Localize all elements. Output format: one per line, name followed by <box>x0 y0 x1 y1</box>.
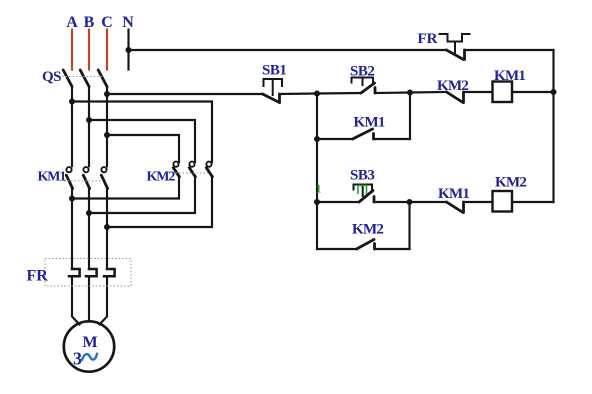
svg-text:KM1: KM1 <box>354 115 385 131</box>
svg-text:M: M <box>82 334 97 351</box>
svg-text:SB3: SB3 <box>350 168 374 184</box>
svg-text:QS: QS <box>42 69 61 85</box>
svg-text:B: B <box>84 14 95 31</box>
svg-text:KM1: KM1 <box>494 68 525 84</box>
svg-text:SB1: SB1 <box>262 63 286 79</box>
svg-text:3: 3 <box>73 349 82 369</box>
svg-text:C: C <box>101 14 113 31</box>
svg-text:N: N <box>122 14 134 31</box>
svg-text:KM1: KM1 <box>38 170 67 185</box>
svg-text:FR: FR <box>418 31 438 47</box>
svg-text:FR: FR <box>27 268 49 285</box>
svg-text:KM2: KM2 <box>147 170 176 185</box>
svg-text:KM2: KM2 <box>437 78 468 94</box>
svg-text:1: 1 <box>316 182 322 196</box>
svg-text:A: A <box>66 14 78 31</box>
svg-text:KM2: KM2 <box>352 222 383 238</box>
svg-text:SB2: SB2 <box>350 64 374 80</box>
svg-text:KM1: KM1 <box>438 186 469 202</box>
svg-text:KM2: KM2 <box>495 175 526 191</box>
